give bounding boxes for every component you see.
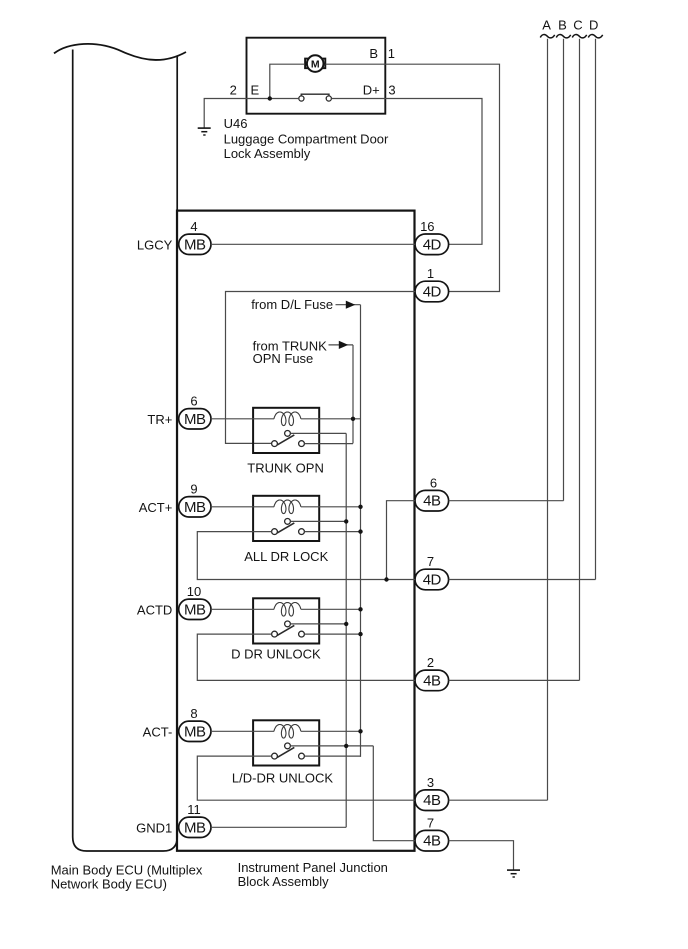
wire LGCY MB pin4 to 4D pin16 (211, 243, 415, 245)
wire U46 pin 2 to ground (204, 99, 299, 129)
ground G1 top-left ground symbol (198, 128, 211, 135)
svg-text:ALL DR LOCK: ALL DR LOCK (244, 549, 328, 564)
svg-text:3: 3 (388, 82, 395, 97)
svg-text:MB: MB (184, 499, 206, 516)
wire coil left lead (211, 418, 274, 420)
svg-text:MB: MB (184, 819, 206, 836)
connector MB pin 9 oval (179, 497, 211, 517)
connector MB pin 11 oval (179, 817, 211, 837)
wire 4B pin3 to net A (449, 799, 548, 801)
svg-text:4D: 4D (423, 284, 442, 301)
svg-text:7: 7 (427, 554, 434, 569)
wire ALL DR LOCK movable contact lead (290, 520, 346, 522)
svg-text:6: 6 (430, 475, 437, 490)
U46 Luggage Compartment Door Lock Assembly box (247, 38, 386, 114)
svg-text:11: 11 (187, 802, 201, 817)
svg-text:B: B (369, 46, 378, 61)
svg-text:A: A (542, 17, 551, 32)
svg-text:10: 10 (187, 584, 201, 599)
connector 4B pin 6 oval (415, 490, 449, 511)
wire ALL DR LOCK fixed contact right lead (304, 531, 360, 533)
relay TRUNK OPN switch (272, 431, 305, 447)
svg-text:4B: 4B (423, 493, 441, 510)
svg-text:MB: MB (184, 411, 206, 428)
wire coil right lead (301, 608, 361, 610)
connector 4B pin 3 oval (415, 790, 449, 811)
wire relay common bus vertical (345, 433, 347, 827)
node dot ALL coil to D/L fuse line (358, 505, 362, 509)
wire D DR UNLOCK output to 4B pin2 (197, 634, 415, 680)
wire L/D-DR UNLOCK output to 4B pin3 (197, 756, 415, 800)
net B harness line (563, 39, 565, 501)
node dot branch junction (384, 577, 388, 581)
switch U46 lock position switch (299, 94, 332, 101)
svg-text:4: 4 (190, 219, 197, 234)
wire-break squiggle on line A (540, 35, 554, 38)
svg-text:D: D (589, 17, 598, 32)
wire 4D pin7 to net D (449, 579, 596, 581)
node junction dot on E wire (268, 96, 272, 100)
wire coil left lead (211, 730, 274, 732)
relay L/D-DR UNLOCK box (253, 720, 319, 765)
wire-break squiggle on line D (588, 35, 602, 38)
svg-text:Instrument Panel Junction: Instrument Panel Junction (238, 860, 388, 875)
connector MB pin 4 oval (179, 234, 211, 254)
wire TRUNK OPN movable contact lead (290, 432, 346, 434)
node dot LD pivot to common bus (344, 744, 348, 748)
svg-text:TRUNK OPN: TRUNK OPN (247, 460, 324, 475)
wire 4B pin6 to net B (449, 500, 564, 502)
node dot LD coil to D/L fuse line (358, 729, 362, 733)
svg-text:C: C (573, 17, 582, 32)
node dot ALL NC to D/L fuse line (358, 529, 362, 533)
relay TRUNK OPN coil (274, 412, 301, 426)
relay L/D-DR UNLOCK switch (272, 743, 305, 759)
wire-break squiggle on line C (572, 35, 586, 38)
node dot DDR coil to D/L fuse line (358, 607, 362, 611)
svg-text:MB: MB (184, 236, 206, 253)
relay TRUNK OPN box (253, 408, 319, 453)
connector MB pin 8 oval (179, 721, 211, 741)
wire 4B pin6 branch to 4D pin7 line (387, 501, 416, 580)
relay D DR UNLOCK box (253, 598, 319, 643)
svg-text:9: 9 (190, 481, 197, 496)
wire L/D-DR UNLOCK movable contact lead (290, 745, 373, 747)
node dot ALL pivot to common bus (344, 519, 348, 523)
arrow from D/L Fuse feed (336, 304, 361, 306)
wire 4B pin2 to net C (449, 679, 580, 681)
connector MB pin 6 oval (179, 409, 211, 429)
svg-text:ACT+: ACT+ (139, 500, 173, 515)
net D harness line (595, 39, 597, 580)
svg-text:GND1: GND1 (136, 820, 172, 835)
ECU Main Body ECU outline (73, 50, 178, 852)
ECU wavy top edge (54, 44, 186, 60)
svg-text:1: 1 (427, 266, 434, 281)
wire coil left lead (211, 608, 274, 610)
svg-text:8: 8 (190, 706, 197, 721)
connector 4B pin 7 oval (415, 830, 449, 851)
connector MB pin 10 oval (179, 599, 211, 619)
node dot TRUNK coil to fuse (351, 417, 355, 421)
svg-text:L/D-DR UNLOCK: L/D-DR UNLOCK (232, 770, 333, 785)
svg-text:2: 2 (230, 82, 237, 97)
svg-text:6: 6 (190, 393, 197, 408)
wire 4B pin7 to ground (449, 841, 514, 870)
wire D DR UNLOCK movable contact lead (290, 623, 346, 625)
wire coil right lead (301, 730, 361, 732)
wire LD pivot to 4B pin7 (373, 746, 415, 841)
connector 4D pin 7 oval (415, 569, 449, 590)
svg-text:LGCY: LGCY (137, 237, 173, 252)
svg-text:Luggage Compartment Door: Luggage Compartment Door (224, 131, 389, 146)
wire coil right lead (301, 418, 361, 420)
svg-text:ACTD: ACTD (137, 602, 172, 617)
svg-text:4B: 4B (423, 792, 441, 809)
junction block Instrument Panel Junction Block rectangle (177, 211, 415, 851)
net C harness line (579, 39, 581, 681)
ground G2 bottom ground symbol (507, 870, 520, 877)
svg-text:D DR UNLOCK: D DR UNLOCK (231, 646, 321, 661)
relay L/D-DR UNLOCK coil (274, 725, 301, 739)
net A harness line (547, 39, 549, 800)
relay ALL DR LOCK switch (272, 519, 305, 535)
svg-text:4B: 4B (423, 833, 441, 850)
wire TRUNK OPN fixed contact right lead (304, 443, 353, 445)
arrow from TRUNK OPN Fuse feed (329, 344, 354, 346)
wire L/D-DR UNLOCK fixed contact right lead (304, 755, 360, 757)
connector 4B pin 2 oval (415, 670, 449, 691)
relay ALL DR LOCK coil (274, 500, 301, 514)
svg-text:U46: U46 (224, 116, 248, 131)
svg-text:Main Body ECU (Multiplex: Main Body ECU (Multiplex (51, 862, 203, 877)
wire TRUNK OPN fuse vertical feed (352, 345, 354, 444)
connector 4D pin 1 oval (415, 281, 449, 302)
svg-text:E: E (251, 83, 260, 98)
motor M door lock motor (305, 55, 325, 72)
svg-text:4B: 4B (423, 672, 441, 689)
svg-text:M: M (311, 58, 320, 70)
svg-text:1: 1 (388, 46, 395, 61)
wire coil left lead (211, 506, 274, 508)
wire motor left terminal to node E (270, 64, 305, 98)
svg-text:Network Body ECU): Network Body ECU) (51, 876, 167, 891)
svg-text:7: 7 (427, 815, 434, 830)
wire D DR UNLOCK fixed contact right lead (304, 633, 360, 635)
svg-text:4D: 4D (423, 236, 442, 253)
svg-text:from D/L Fuse: from D/L Fuse (251, 297, 333, 312)
wire GND1 MB pin11 to common bus (211, 826, 346, 828)
svg-text:MB: MB (184, 601, 206, 618)
wire U46 pin 3 D+ to connector 4D pin 16 (331, 99, 482, 245)
node dot DDR pivot to common bus (344, 622, 348, 626)
wire D/L fuse vertical feed line (360, 305, 362, 757)
svg-text:B: B (558, 17, 567, 32)
relay D DR UNLOCK coil (274, 603, 301, 617)
svg-text:Block Assembly: Block Assembly (238, 874, 330, 889)
svg-text:TR+: TR+ (147, 412, 172, 427)
wire U46 pin 1 B to connector 4D pin 1 (326, 64, 500, 291)
svg-text:D+: D+ (363, 83, 380, 98)
svg-text:Lock Assembly: Lock Assembly (224, 146, 311, 161)
relay D DR UNLOCK switch (272, 621, 305, 637)
svg-text:ACT-: ACT- (143, 724, 173, 739)
wire ALL DR LOCK output to 4D pin7 (197, 532, 415, 580)
svg-text:2: 2 (427, 655, 434, 670)
svg-text:16: 16 (420, 219, 434, 234)
node dot DDR NC to D/L fuse line (358, 632, 362, 636)
relay ALL DR LOCK box (253, 496, 319, 541)
wire 4D pin1 to trunk relay common (226, 292, 416, 444)
wire coil right lead (301, 506, 361, 508)
svg-text:4D: 4D (423, 572, 442, 589)
wire-break squiggle on line B (556, 35, 570, 38)
svg-text:OPN Fuse: OPN Fuse (253, 351, 314, 366)
svg-text:3: 3 (427, 775, 434, 790)
connector 4D pin 16 oval (415, 234, 449, 255)
svg-text:MB: MB (184, 723, 206, 740)
